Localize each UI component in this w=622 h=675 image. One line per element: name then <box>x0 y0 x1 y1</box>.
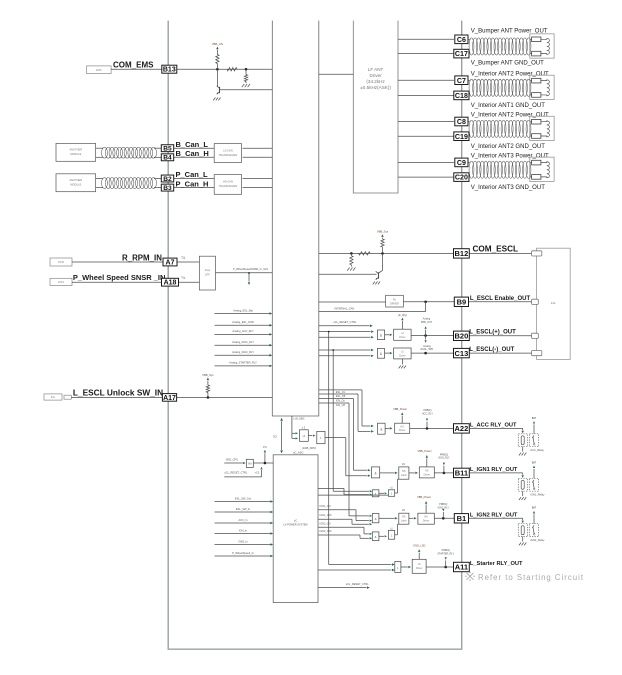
wire U2 out IGN1_OFF <box>318 518 352 520</box>
twisted pair ANT2 <box>469 79 474 96</box>
wire U1 to B12 <box>319 252 454 254</box>
pin B11 <box>454 468 470 477</box>
module border (smart key unit) <box>168 21 462 650</box>
svg-text:Driver: Driver <box>399 429 406 432</box>
svg-text:Analog_ESL_Bat: Analog_ESL_Bat <box>233 308 253 312</box>
IC driver HS B11 <box>419 467 434 478</box>
IC U5 CAN transceiver 2 <box>214 175 241 195</box>
svg-text:ESL: ESL <box>51 397 56 399</box>
svg-text:LPF: LPF <box>205 272 210 276</box>
svg-text:PRB_OUT: PRB_OUT <box>421 321 433 324</box>
wire input GND_In <box>215 544 271 546</box>
resistor R3 series <box>359 252 371 255</box>
svg-text:V_Bumper ANT GND_OUT: V_Bumper ANT GND_OUT <box>471 61 544 67</box>
wire X3 to X4 <box>308 435 312 437</box>
svg-text:uC_ADC: uC_ADC <box>293 451 304 455</box>
wire input ESL_SW_Out <box>215 501 271 503</box>
svg-text:A11: A11 <box>455 563 468 572</box>
svg-text:SCI: SCI <box>273 436 277 439</box>
node J3 <box>207 396 210 399</box>
svg-text:LIN_SBC: LIN_SBC <box>294 416 305 420</box>
gate X5 <box>378 423 386 434</box>
svg-text:A22: A22 <box>455 424 469 433</box>
wire analog input Analog_IGN1_RLY <box>215 344 270 346</box>
wire U2 out IGN2_OFF <box>318 534 360 536</box>
wire B2 to transceiver <box>174 178 215 180</box>
svg-text:ANOTHER: ANOTHER <box>69 148 82 152</box>
svg-text:B13: B13 <box>163 67 176 74</box>
wire ant pair 4 right <box>530 162 532 164</box>
ground G3 <box>347 268 349 271</box>
tap test point <box>248 273 250 282</box>
svg-text:RS: RS <box>402 516 406 519</box>
connector EMS box <box>87 66 112 74</box>
wire latch1 to driver <box>409 472 415 474</box>
wire LF driver out y177.1 <box>398 176 454 178</box>
antenna L1 load box <box>530 34 554 58</box>
gate X10 <box>395 562 401 573</box>
wire LF driver out y39.3 <box>398 38 454 40</box>
IC driver HB1 <box>394 329 412 340</box>
gate X6 <box>372 467 380 478</box>
svg-text:C19: C19 <box>455 133 468 141</box>
wire X4 out to gate X6 in2 <box>325 437 346 439</box>
wire B9 to ESCL <box>469 301 534 303</box>
svg-text:HS: HS <box>401 425 405 428</box>
antenna L4 load box <box>530 157 554 181</box>
svg-text:&: & <box>375 517 377 521</box>
svg-text:IGN1_OFF: IGN1_OFF <box>320 514 333 517</box>
twisted pair TP2 <box>102 178 108 189</box>
wire U1 to driver B9 <box>319 301 386 303</box>
svg-text:B1: B1 <box>457 514 467 523</box>
wire ant pair 3 right <box>530 121 532 123</box>
arrow into coil ACC_Relay <box>521 431 523 434</box>
wire ant pair 2 right <box>530 80 532 82</box>
pin B5 <box>161 145 173 152</box>
wire input IGN_In <box>215 533 271 535</box>
svg-text:Driver: Driver <box>423 520 430 523</box>
svg-text:T/L: T/L <box>181 256 186 260</box>
wire LF driver out y136.2 <box>398 135 454 137</box>
IC driver LS1 <box>394 348 412 359</box>
wire bus ESL_Off <box>319 393 358 395</box>
svg-text:Analog_IGN2_RLY: Analog_IGN2_RLY <box>232 350 254 354</box>
connector ANOTHER MODULE 1 <box>56 143 96 161</box>
svg-text:Latch: Latch <box>401 474 408 477</box>
ground relay IGN2_Relay <box>522 537 524 542</box>
svg-text:MODULE: MODULE <box>70 152 81 156</box>
svg-text:VBB_Power: VBB_Power <box>393 407 407 411</box>
wire LF driver out y162.4 <box>398 161 454 163</box>
wire to relay IGN1_Relay <box>469 472 523 474</box>
wire long vertical v1 <box>328 332 330 565</box>
terminal pad 353.1 <box>532 351 542 356</box>
relay switch ACC_Relay <box>529 434 538 447</box>
svg-text:ESCL_SPD: ESCL_SPD <box>421 348 434 351</box>
wire bus drop2 to gate3b <box>358 430 371 432</box>
ground G2 <box>213 98 215 101</box>
svg-text:ESL_Off: ESL_Off <box>336 395 346 398</box>
svg-text:C18: C18 <box>455 92 468 100</box>
wire X7 to or1 <box>379 492 384 494</box>
svg-text:VBB_Sys: VBB_Sys <box>202 373 214 377</box>
wire B13 to U1 <box>177 68 272 70</box>
svg-text:Driver: Driver <box>424 473 431 476</box>
svg-text:&: & <box>375 535 377 539</box>
svg-text:V_Interior ANT3 Power_OUT: V_Interior ANT3 Power_OUT <box>471 154 549 160</box>
svg-text:HS: HS <box>425 469 429 472</box>
svg-text:A17: A17 <box>163 395 176 402</box>
node J1 <box>216 68 219 71</box>
twisted pair ANT4 <box>469 161 474 178</box>
svg-text:+C3: +C3 <box>255 471 260 474</box>
svg-text:LV POWER SYSTEM: LV POWER SYSTEM <box>284 523 308 526</box>
svg-text:IGN2_Relay: IGN2_Relay <box>530 538 545 542</box>
wire U4 to U1 <box>243 147 273 149</box>
wire SW to A17 <box>71 396 162 398</box>
wire ant pair 1 right <box>530 38 532 40</box>
svg-text:ACC_In: ACC_In <box>238 518 248 522</box>
svg-text:HS: HS <box>424 516 428 519</box>
wire A7 to LPF <box>177 261 199 263</box>
pin A7 <box>163 258 177 266</box>
node J4 <box>350 252 353 255</box>
wire analog input Analog_IGN2_RLY <box>215 354 270 356</box>
pin A18 <box>162 278 179 286</box>
svg-text:B5: B5 <box>163 146 172 153</box>
svg-text:V_Interior ANT2 GND_OUT: V_Interior ANT2 GND_OUT <box>471 144 546 150</box>
svg-text:WSS: WSS <box>58 280 64 284</box>
svg-text:uCL_RESET_CTRL: uCL_RESET_CTRL <box>224 471 248 475</box>
wire bus IGN_Off <box>319 402 349 404</box>
IC latch2 <box>399 513 409 524</box>
svg-text:C17: C17 <box>455 50 468 58</box>
svg-text:IGN1_RLY: IGN1_RLY <box>438 457 450 460</box>
svg-text:RS: RS <box>402 470 406 473</box>
node J9 <box>426 427 429 430</box>
svg-text:uCL_RESET_CTRL: uCL_RESET_CTRL <box>346 582 370 586</box>
svg-text:uCL_RESET_CTRL: uCL_RESET_CTRL <box>333 320 357 324</box>
svg-text:ESL_SW_Out: ESL_SW_Out <box>235 496 251 500</box>
node J11 <box>442 517 445 520</box>
svg-text:COM_ESCL: COM_ESCL <box>473 244 519 253</box>
wire U5 to U1 <box>243 178 273 180</box>
svg-text:R_RPM_IN: R_RPM_IN <box>122 253 162 262</box>
svg-text:GND_In: GND_In <box>238 539 248 543</box>
svg-text:BAT: BAT <box>532 461 537 464</box>
svg-text:IGN_In: IGN_In <box>239 528 248 532</box>
wire EMS to B13 <box>111 68 162 70</box>
node J8 <box>424 352 427 355</box>
wire bus drop3 to gate4 <box>354 469 368 471</box>
svg-text:IGN2_ON: IGN2_ON <box>320 522 331 525</box>
pin C17 <box>454 49 469 58</box>
wire X10 to driver <box>401 566 408 568</box>
svg-text:IGN2_OFF: IGN2_OFF <box>320 530 333 533</box>
connector ESCL body <box>537 248 571 359</box>
wire U2 out IGN2_ON <box>318 526 364 528</box>
svg-text:ESL: ESL <box>551 301 557 305</box>
node J5 <box>381 252 384 255</box>
wire input ESL_SW_In <box>215 511 271 513</box>
wire LF driver out y53.6 <box>398 53 454 55</box>
svg-text:±0.5kHz(ASK)): ±0.5kHz(ASK)) <box>360 85 391 90</box>
pin C18 <box>454 91 469 100</box>
wire B4 to transceiver <box>174 156 215 158</box>
IC U2 power system box <box>273 455 318 603</box>
wire driver2 to C13 <box>411 352 454 354</box>
svg-text:IGN_Off: IGN_Off <box>336 404 345 407</box>
wire to relay ACC_Relay <box>469 427 523 429</box>
svg-text:uC: uC <box>294 520 297 523</box>
relay switch IGN2_Relay <box>529 524 538 537</box>
svg-text:Analog_ESL_GND: Analog_ESL_GND <box>232 320 254 324</box>
gate X4 <box>317 431 325 443</box>
svg-text:P_Can_L: P_Can_L <box>176 170 209 179</box>
IC relay driver box B9 <box>386 295 404 307</box>
wire LF driver out y121.5 <box>398 121 454 123</box>
node J12 <box>444 566 447 569</box>
node J10 <box>443 472 446 475</box>
wire U2 to A11 gate <box>318 569 392 571</box>
wire X5 to driver <box>385 427 389 429</box>
IC WD box <box>246 459 253 467</box>
svg-text:ANOTHER: ANOTHER <box>69 178 82 182</box>
svg-text:Analog_ACC_RLY: Analog_ACC_RLY <box>232 329 254 333</box>
wire WD to U2 <box>253 462 273 464</box>
wire WSS to A18 <box>72 281 162 283</box>
pin C13 <box>454 348 470 357</box>
wire long vertical v2 <box>332 350 334 491</box>
wire analog input Analog_STARTER_RLY <box>215 365 270 367</box>
IC driver HS A22 <box>395 423 410 433</box>
svg-text:B3: B3 <box>163 185 172 192</box>
pin B12 <box>454 249 470 258</box>
ground relay IGN1_Relay <box>522 491 524 496</box>
svg-text:DRIVER: DRIVER <box>390 302 399 305</box>
wire LPF to U1 <box>216 272 273 274</box>
tap Analog ESCL_SPD <box>425 336 427 340</box>
IC driver HS B1 <box>418 513 434 524</box>
wire or2 to latch2 <box>395 534 398 536</box>
svg-text:(34.2kHz: (34.2kHz <box>366 79 385 84</box>
pin C19 <box>454 132 469 141</box>
wire gate1 inputs <box>319 331 371 333</box>
wire ant pair 3 stubs <box>469 121 470 123</box>
svg-text:COM_EMS: COM_EMS <box>113 60 154 69</box>
svg-text:TRANSCEIVER: TRANSCEIVER <box>219 153 238 157</box>
wire uCL_RESET_CTRL <box>319 325 370 327</box>
node J2 <box>245 68 248 71</box>
svg-text:ESL_SW_In: ESL_SW_In <box>236 507 251 511</box>
antenna L3 load box <box>530 116 554 140</box>
svg-text:TRANSCEIVER: TRANSCEIVER <box>219 184 238 188</box>
wire or1 to latch1 <box>395 492 398 494</box>
pin B20 <box>454 331 470 340</box>
wire U1 bottom to gates <box>291 416 293 438</box>
wire gate2 inputs <box>319 349 371 351</box>
svg-text:V_Interior ANT3 GND_OUT: V_Interior ANT3 GND_OUT <box>471 185 546 191</box>
svg-text:L_ESCL(-)_OUT: L_ESCL(-)_OUT <box>469 347 514 353</box>
relay coil ACC_Relay <box>518 434 527 447</box>
svg-text:LF ANT: LF ANT <box>368 67 384 72</box>
node J6 <box>424 301 427 304</box>
wire TP2 to pins <box>154 178 162 180</box>
svg-text:BAT: BAT <box>532 417 537 420</box>
svg-text:V_Interior ANT2 Power_OUT: V_Interior ANT2 Power_OUT <box>471 113 549 119</box>
wire input P_WheelSpeed_In <box>215 555 271 557</box>
svg-text:C20: C20 <box>455 174 468 182</box>
connector RPM box <box>50 258 72 266</box>
connector ESCL SW <box>44 394 62 400</box>
gate X1 <box>377 330 384 340</box>
ground relay ACC_Relay <box>522 447 524 452</box>
wire TP1 to pins <box>154 147 162 149</box>
svg-text:P_Wheel Speed SNSR _IN: P_Wheel Speed SNSR _IN <box>73 273 166 282</box>
svg-text:L_ESCL(+)_OUT: L_ESCL(+)_OUT <box>469 330 516 336</box>
svg-text:B12: B12 <box>455 249 469 258</box>
svg-text:Freq: Freq <box>205 268 211 272</box>
wire A18 to LPF <box>179 281 200 283</box>
svg-text:T/L: T/L <box>181 276 186 280</box>
svg-text:B4: B4 <box>163 155 172 162</box>
svg-text:STARTER_RLY: STARTER_RLY <box>437 552 454 555</box>
pin B2 <box>161 175 173 182</box>
wire INTERNAL_CAN <box>319 311 426 313</box>
IC driver LS A11 <box>412 559 426 573</box>
svg-text:EMS: EMS <box>96 68 102 72</box>
wire B20 to ESCL <box>469 335 534 337</box>
pin B3 <box>161 184 173 191</box>
wire U2 out 2 <box>318 494 388 496</box>
wire U1 to LF ANT driver <box>319 73 354 75</box>
transistor Q2 <box>319 273 377 275</box>
wire X9 to or2 <box>379 535 384 537</box>
connector WSS box <box>50 278 72 285</box>
twisted pair ANT1 <box>469 38 474 55</box>
svg-text:V_Interior ANT1 GND_OUT: V_Interior ANT1 GND_OUT <box>471 103 546 109</box>
wire ant pair 4 stubs <box>469 162 470 164</box>
relay switch IGN1_Relay <box>529 478 538 491</box>
svg-text:Analog_IGN1_RLY: Analog_IGN1_RLY <box>232 340 254 344</box>
IC U1 tall box (LIN_SBC) <box>272 21 319 416</box>
svg-text:B9: B9 <box>457 298 467 307</box>
wire A17 to U1 <box>177 396 273 398</box>
antenna L2 load box <box>530 75 554 99</box>
wire driver1 to B20 <box>411 335 454 337</box>
wire LF driver out y95.4 <box>398 94 454 96</box>
connector ANOTHER MODULE 2 <box>56 174 96 192</box>
svg-text:IGN1_ON: IGN1_ON <box>320 505 331 508</box>
twisted pair ANT3 <box>469 120 474 137</box>
svg-text:L_ESCL Unlock SW_IN: L_ESCL Unlock SW_IN <box>73 387 163 397</box>
svg-text:C9: C9 <box>457 159 466 167</box>
svg-text:LS: LS <box>418 563 421 566</box>
svg-text:VBB_LIN: VBB_LIN <box>212 42 223 46</box>
svg-text:A7: A7 <box>166 260 175 267</box>
wire analog input Analog_ESL_Bat <box>215 313 270 315</box>
wire uCL_RESET_CTRL 3 <box>318 587 367 589</box>
svg-text:RPM: RPM <box>58 260 64 264</box>
twisted pair TP1 <box>102 147 108 158</box>
wire gate2 to driver2 <box>385 352 390 354</box>
pin C20 <box>454 173 469 182</box>
wire RPM to A7 <box>72 261 163 263</box>
svg-text:C7: C7 <box>457 77 466 85</box>
svg-text:B11: B11 <box>455 469 468 478</box>
svg-text:L_IGN1 RLY_OUT: L_IGN1 RLY_OUT <box>470 467 518 473</box>
svg-text:&: & <box>375 492 377 496</box>
relay coil IGN1_Relay <box>518 478 527 491</box>
IC U3 LF ANT driver box <box>353 21 398 193</box>
pin B4 <box>161 154 173 161</box>
pin B9 <box>454 297 468 306</box>
svg-text:Latch: Latch <box>401 520 408 523</box>
wire driver to A11 <box>426 566 454 568</box>
terminal pad 335.8 <box>532 333 539 338</box>
wire analog input Analog_ESL_GND <box>215 324 270 326</box>
svg-text:C8: C8 <box>457 118 466 126</box>
svg-text:VBB_Power: VBB_Power <box>417 495 431 499</box>
wire U2 out IGN1_ON <box>318 509 356 511</box>
svg-text:A18: A18 <box>164 280 177 287</box>
svg-text:(ESB_DRV): (ESB_DRV) <box>302 446 316 450</box>
gate X7 <box>372 490 379 497</box>
svg-text:L_IGN2 RLY_OUT: L_IGN2 RLY_OUT <box>470 512 518 518</box>
svg-text:INTERNAL_CAN: INTERNAL_CAN <box>335 307 355 311</box>
svg-text:C6: C6 <box>457 36 466 44</box>
gate X8 <box>372 514 379 523</box>
svg-text:V_Interior ANT2 Power_OUT: V_Interior ANT2 Power_OUT <box>471 72 549 78</box>
svg-text:C13: C13 <box>455 349 469 358</box>
resistor R1 series <box>227 68 237 71</box>
pin C8 <box>455 117 468 126</box>
svg-text:VBB_Power: VBB_Power <box>418 449 432 453</box>
svg-text:PU: PU <box>263 445 267 449</box>
svg-text:MODULE: MODULE <box>70 183 81 187</box>
wire driver to B1 <box>434 517 454 519</box>
svg-text:VBB_Sys: VBB_Sys <box>377 229 389 233</box>
wire U2 out 1 <box>318 487 344 489</box>
pin A17 <box>162 394 176 402</box>
svg-text:Driver: Driver <box>399 355 406 358</box>
svg-text:Analog_STARTER_RLY: Analog_STARTER_RLY <box>229 361 257 365</box>
wire driver to B11 <box>434 472 454 474</box>
svg-text:B20: B20 <box>455 332 469 341</box>
terminal ESCL 253.4 <box>469 252 532 254</box>
svg-text:B_Can_H: B_Can_H <box>176 149 209 158</box>
wire to relay IGN2_Relay <box>469 517 523 519</box>
wire bus IGN_On <box>319 398 354 400</box>
gate X2 <box>377 349 384 359</box>
wire latch2 to driver <box>409 517 414 519</box>
IC latch1 <box>399 467 409 479</box>
svg-text:Driver: Driver <box>369 73 382 78</box>
svg-text:B2: B2 <box>163 176 172 183</box>
wire module1 stubs <box>96 147 103 149</box>
svg-text:IGN1_Relay: IGN1_Relay <box>530 493 545 497</box>
wire bus drop4 to gate X8 <box>349 515 369 517</box>
arrow into coil IGN1_Relay <box>521 475 523 478</box>
wire LF driver out y80.2 <box>398 79 454 81</box>
svg-text:P_WheelSpeedSNSR_In_SxS: P_WheelSpeedSNSR_In_SxS <box>233 267 268 271</box>
svg-text:(In_Rly): (In_Rly) <box>398 313 407 317</box>
pin A22 <box>454 424 470 433</box>
svg-text:Driver: Driver <box>416 567 423 570</box>
pin A11 <box>454 562 470 571</box>
svg-text:Driver: Driver <box>399 336 406 339</box>
